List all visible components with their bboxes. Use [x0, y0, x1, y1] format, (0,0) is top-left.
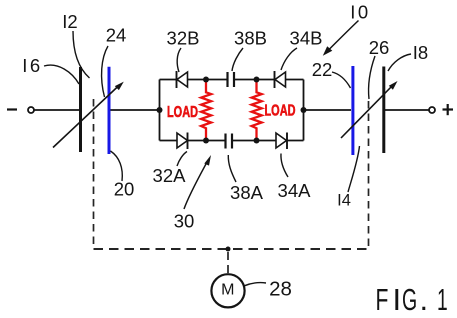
svg-text:24: 24: [106, 25, 127, 46]
svg-text:I: I: [393, 282, 402, 317]
svg-text:F: F: [376, 282, 389, 317]
svg-text:I4: I4: [337, 192, 351, 210]
svg-text:38B: 38B: [234, 28, 267, 49]
svg-text:I2: I2: [62, 11, 77, 32]
svg-text:28: 28: [269, 278, 292, 301]
svg-text:.: .: [420, 282, 429, 317]
svg-text:34B: 34B: [290, 28, 323, 49]
svg-text:I6: I6: [22, 55, 42, 76]
svg-text:30: 30: [174, 211, 195, 232]
svg-text:32B: 32B: [167, 28, 200, 49]
svg-text:32A: 32A: [153, 165, 187, 186]
svg-text:34A: 34A: [278, 180, 312, 201]
svg-text:G: G: [402, 284, 417, 318]
svg-text:I0: I0: [350, 2, 370, 23]
svg-text:20: 20: [114, 179, 135, 200]
svg-text:22: 22: [312, 59, 333, 80]
svg-text:38A: 38A: [230, 182, 264, 203]
svg-text:1: 1: [437, 284, 448, 318]
svg-text:LOAD: LOAD: [265, 103, 296, 120]
svg-text:26: 26: [369, 37, 390, 58]
svg-text:I8: I8: [413, 42, 428, 63]
svg-text:LOAD: LOAD: [167, 104, 198, 121]
svg-text:M: M: [221, 282, 234, 299]
